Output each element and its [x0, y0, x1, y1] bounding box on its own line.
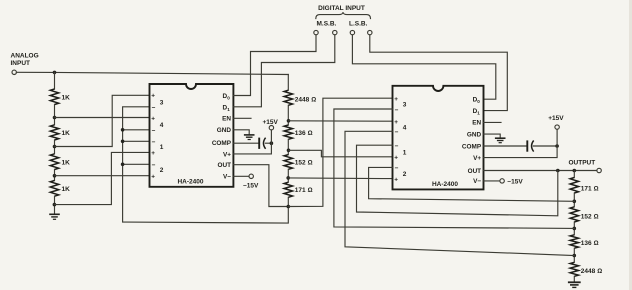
resistor R-C3 136 ohm [570, 235, 578, 248]
wire feedback tap2 to U2 pin -3 [334, 109, 574, 228]
svg-text:+: + [151, 174, 155, 181]
wire middle ladder top lead [287, 75, 289, 91]
svg-text:171 Ω: 171 Ω [295, 187, 313, 194]
wire bus branch to U1 pin -4 [123, 129, 150, 131]
ground U2 GND symbol [495, 138, 506, 143]
terminal digital bit 1 [314, 30, 318, 34]
resistor R-B4 171 ohm [284, 182, 292, 197]
svg-text:+: + [394, 155, 398, 162]
svg-text:−15V: −15V [243, 182, 259, 189]
node bus -1 [121, 140, 125, 144]
wire bus branch to U1 pin -2 [123, 163, 150, 165]
wire U1 EN stub [233, 117, 251, 119]
svg-text:V−: V− [223, 174, 231, 181]
svg-text:4: 4 [160, 122, 164, 129]
svg-text:152 Ω: 152 Ω [581, 214, 599, 221]
svg-text:1K: 1K [62, 159, 71, 166]
wire U2 EN stub [484, 121, 502, 123]
wire tap1 to U1 pin +4 [55, 117, 150, 119]
node bus -2 [121, 163, 125, 167]
svg-text:HA-2400: HA-2400 [177, 179, 203, 186]
terminal digital bit 4 [368, 30, 372, 34]
terminal U1 +15V [269, 126, 273, 130]
resistor R-B1 2448 ohm [284, 90, 292, 105]
svg-text:COMP: COMP [462, 143, 482, 150]
resistor R-A1 1K [50, 89, 58, 105]
wire right ladder segment 3 [573, 222, 575, 235]
terminal U2 +15V [555, 125, 559, 129]
svg-text:−: − [152, 139, 156, 146]
svg-text:4: 4 [403, 125, 407, 132]
svg-text:2448 Ω: 2448 Ω [581, 268, 602, 275]
svg-text:1K: 1K [62, 94, 71, 101]
wire bit4 to U2 D1 [370, 35, 508, 111]
ground right ladder [568, 282, 581, 287]
node middle ladder tap 2 [287, 149, 291, 153]
svg-text:V+: V+ [473, 155, 481, 162]
svg-text:OUTPUT: OUTPUT [569, 160, 596, 167]
wire U2 V+ to +15V [484, 129, 558, 157]
node input junction [53, 71, 57, 75]
svg-text:3: 3 [403, 101, 407, 108]
wire tap3 to U1 pin +2 [55, 175, 150, 177]
svg-text:INPUT: INPUT [11, 60, 31, 67]
svg-text:OUT: OUT [468, 168, 482, 175]
svg-text:2: 2 [403, 171, 407, 178]
scan page edge shading right [629, 0, 632, 290]
terminal U2 -15V [500, 179, 504, 183]
terminal U1 -15V [249, 174, 253, 178]
svg-text:1: 1 [227, 107, 230, 112]
wire U1 COMP to capacitor [233, 142, 258, 144]
resistor R-A2 1K [50, 125, 58, 140]
svg-text:+: + [394, 119, 398, 126]
node output feedback junction [556, 169, 560, 173]
svg-text:GND: GND [217, 127, 232, 134]
svg-text:+: + [151, 150, 155, 157]
node U1 V+ junction [270, 141, 274, 145]
svg-text:EN: EN [472, 120, 481, 127]
svg-text:171 Ω: 171 Ω [581, 186, 599, 193]
wire U2 V- stub [484, 180, 500, 182]
svg-text:136 Ω: 136 Ω [581, 240, 599, 247]
resistor R-A4 1K [50, 181, 58, 197]
wire U1 V- stub [233, 175, 249, 177]
wire ladder bottom riser to U2 pin +3 [288, 98, 392, 206]
capacitor C1 [259, 138, 271, 149]
svg-text:HA-2400: HA-2400 [432, 181, 458, 188]
svg-text:2: 2 [160, 167, 164, 174]
wire right ladder segment 2 [573, 193, 575, 207]
wire middle ladder bottom lead [287, 197, 289, 206]
wire bit1 to U1 D0 [233, 35, 316, 96]
wire ground node to U1 pin +1 [54, 152, 149, 204]
wire left ladder segment 1 [54, 72, 56, 89]
wire left ladder segment 4 [54, 170, 56, 181]
svg-text:V+: V+ [223, 151, 231, 158]
node right ladder tap 2 [573, 227, 577, 231]
node left ladder tap 2 [53, 145, 57, 149]
svg-text:1: 1 [403, 149, 407, 156]
wire middle tap2 to U2 pin +1 [289, 150, 393, 157]
svg-text:+: + [394, 96, 398, 103]
terminal digital bit 2 [333, 30, 337, 34]
node right ladder tap 1 [573, 200, 577, 204]
resistor R-A3 1K [50, 154, 58, 170]
wire left ladder segment 2 [54, 105, 56, 125]
node middle ladder bottom junction [287, 205, 291, 209]
capacitor C2 [527, 140, 557, 151]
wire left ladder to ground [54, 196, 56, 214]
wire U2 GND pin [484, 134, 501, 138]
node bus -4 [121, 128, 125, 132]
node right ladder tap 3 [573, 254, 577, 258]
svg-text:1: 1 [160, 144, 164, 151]
wire tap2 to U1 pin +3 [55, 95, 150, 146]
op-amp U1 HA-2400 body [150, 84, 234, 187]
svg-text:+: + [394, 176, 398, 183]
svg-text:−: − [395, 107, 399, 114]
resistor R-B2 136 ohm [284, 125, 292, 139]
resistor R-B3 152 ohm [284, 155, 292, 170]
wire right ladder to ground [573, 276, 575, 282]
wire U1 inverting bus [123, 107, 289, 223]
resistor R-C2 152 ohm [570, 207, 578, 222]
svg-text:+: + [151, 93, 155, 100]
node right ladder top junction [573, 169, 577, 173]
svg-text:−: − [152, 162, 156, 169]
svg-text:DIGITAL INPUT: DIGITAL INPUT [318, 5, 365, 12]
wire U1 OUT to ladder bottom [233, 165, 288, 207]
svg-text:OUT: OUT [218, 162, 232, 169]
wire U1 V+ to +15V [233, 130, 271, 154]
svg-text:M.S.B.: M.S.B. [317, 20, 337, 27]
node middle ladder tap 1 [287, 119, 291, 123]
terminal analog input [12, 70, 16, 74]
wire right ladder top lead [573, 171, 575, 178]
svg-text:−: − [152, 127, 156, 134]
node middle ladder tap 3 [286, 176, 290, 180]
svg-text:V−: V− [473, 178, 481, 185]
svg-text:COMP: COMP [212, 140, 232, 147]
terminal digital bit 3 [350, 30, 354, 34]
wire bus branch to U1 pin -1 [123, 140, 150, 142]
resistor R-C1 171 ohm [570, 178, 578, 194]
svg-text:L.S.B.: L.S.B. [349, 20, 368, 27]
svg-text:0: 0 [477, 99, 480, 104]
wire U2 COMP to capacitor [484, 145, 527, 147]
wire bit2 to U1 D1 [233, 35, 334, 107]
svg-text:ANALOG: ANALOG [11, 53, 39, 60]
wire right ladder segment 4 [573, 248, 575, 262]
resistor R-C4 2448 ohm [570, 262, 578, 276]
wire middle tap1 to U2 pin +4 [289, 120, 393, 122]
svg-text:+: + [151, 115, 155, 122]
wire U1 GND pin [233, 130, 249, 134]
svg-text:0: 0 [227, 95, 230, 100]
node U2 V+ junction [555, 144, 559, 148]
svg-text:GND: GND [467, 131, 482, 138]
node left ladder bottom junction [53, 203, 57, 207]
svg-text:EN: EN [222, 116, 231, 123]
svg-text:+15V: +15V [263, 119, 279, 126]
svg-text:1: 1 [477, 111, 480, 116]
wire feedback tap1 to U2 pin -2 [369, 167, 575, 201]
wire feedback output loop to U2 pin -1 [357, 145, 558, 216]
wire U2 OUT to output terminal [484, 170, 597, 172]
svg-text:152 Ω: 152 Ω [295, 160, 313, 167]
svg-text:136 Ω: 136 Ω [295, 130, 313, 137]
op-amp U2 HA-2400 body [393, 86, 484, 190]
svg-text:−: − [395, 165, 399, 172]
svg-text:−15V: −15V [507, 179, 523, 186]
wire middle tap3 to U2 pin +2 [288, 177, 392, 180]
svg-text:1K: 1K [62, 186, 71, 193]
node left ladder tap 1 [53, 116, 57, 120]
svg-text:2448 Ω: 2448 Ω [295, 97, 316, 104]
svg-text:+15V: +15V [548, 115, 564, 122]
wire bit3 to U2 D0 [352, 35, 495, 99]
svg-text:−: − [152, 104, 156, 111]
brace under digital input [316, 12, 371, 18]
svg-text:1K: 1K [62, 130, 71, 137]
wire middle ladder segment 2 [287, 105, 289, 125]
wire left ladder segment 3 [54, 140, 56, 154]
node left ladder tap 3 [53, 174, 57, 178]
svg-text:3: 3 [160, 100, 164, 107]
wire middle ladder segment 3 [287, 139, 289, 154]
wire middle ladder segment 4 [287, 169, 289, 182]
terminal OUTPUT [597, 168, 601, 172]
svg-text:−: − [395, 129, 399, 136]
wire feedback tap3 to U2 pin -4 [345, 131, 574, 255]
ground left ladder [49, 214, 60, 219]
wire analog input to middle ladder top [16, 72, 288, 74]
svg-text:−: − [395, 143, 399, 150]
ground U1 GND symbol [244, 135, 255, 140]
